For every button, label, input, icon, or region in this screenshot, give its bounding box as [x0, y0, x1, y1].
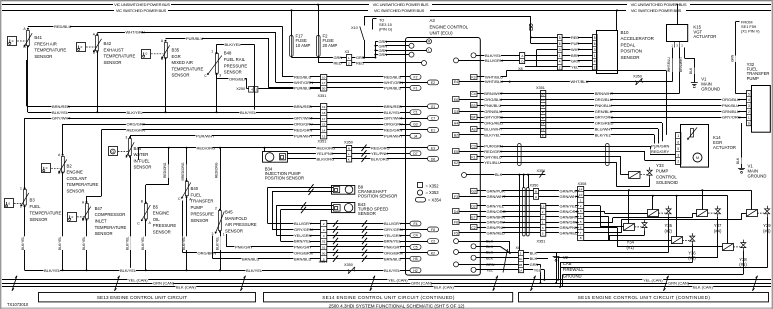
note TO SE3 15: [372, 19, 374, 30]
svg-text:ENGINE: ENGINE: [67, 170, 83, 175]
svg-text:RED: RED: [356, 61, 364, 66]
svg-text:1: 1: [580, 198, 582, 202]
svg-text:3: 3: [219, 73, 221, 77]
wire B35 pin B down: [165, 58, 167, 112]
switch X10 to SE3: [364, 17, 366, 26]
svg-text:F4: F4: [414, 222, 418, 226]
svg-text:3: 3: [542, 226, 544, 230]
svg-text:BLK/YEL: BLK/YEL: [595, 132, 612, 137]
ECU input circles GRN/RED: [406, 41, 427, 43]
svg-text:G1: G1: [431, 105, 436, 109]
svg-text:VIC UNSWITCHED POWER BUS: VIC UNSWITCHED POWER BUS: [114, 2, 170, 7]
wires BLK merge to X8: [481, 241, 510, 243]
svg-text:3: 3: [125, 136, 127, 140]
svg-text:GRN/GRY: GRN/GRY: [487, 220, 506, 225]
svg-text:ORG/BLU: ORG/BLU: [595, 97, 613, 102]
svg-text:BLK/YEL: BLK/YEL: [215, 236, 219, 250]
svg-text:Y33: Y33: [656, 163, 664, 168]
svg-text:YEL/GRN: YEL/GRN: [384, 233, 402, 238]
svg-text:GRY/ORG: GRY/ORG: [595, 115, 614, 120]
svg-text:L: L: [428, 49, 430, 53]
svg-text:GRN: GRN: [334, 55, 343, 60]
connector X351 col2: [321, 104, 327, 139]
svg-text:RED/ORG: RED/ORG: [317, 145, 336, 150]
svg-text:WHT/GRN: WHT/GRN: [294, 80, 313, 85]
svg-text:E2: E2: [431, 81, 435, 85]
injector solenoid Y36 (#3): [672, 237, 683, 244]
svg-text:B44: B44: [134, 146, 142, 151]
svg-text:5: 5: [559, 36, 561, 40]
svg-text:GRN/BRN: GRN/BRN: [487, 214, 506, 219]
wire B42 pin B down: [97, 52, 99, 112]
svg-text:K1: K1: [471, 156, 475, 160]
wire RED/BLU B41 pin A: [28, 26, 282, 28]
svg-text:19: 19: [322, 105, 326, 109]
svg-text:GRN/BLU: GRN/BLU: [722, 109, 740, 114]
svg-text:GRY/GRN: GRY/GRN: [294, 227, 313, 232]
svg-text:GRN/YEL: GRN/YEL: [487, 203, 505, 208]
wire X308 row to Y34 coil: [584, 205, 601, 207]
svg-text:PRESSURE: PRESSURE: [224, 63, 248, 68]
connector B10 pin column: [593, 35, 598, 70]
svg-text:WHT/BLU: WHT/BLU: [667, 57, 671, 72]
svg-text:PNK/GRY: PNK/GRY: [384, 245, 402, 250]
svg-text:SENSOR: SENSOR: [104, 60, 122, 65]
svg-text:2: 2: [542, 210, 544, 214]
svg-text:GRN: GRN: [571, 59, 580, 64]
svg-text:RED/ORG: RED/ORG: [197, 145, 216, 150]
svg-text:= X353: = X353: [426, 190, 440, 195]
pump Y32 fuel transfer: [752, 86, 771, 133]
svg-text:X350: X350: [344, 141, 353, 145]
CAN bus GRN: [2, 283, 771, 285]
svg-text:14: 14: [322, 129, 326, 133]
svg-text:BRN/WHT: BRN/WHT: [679, 57, 683, 72]
sensor B2: [62, 157, 65, 173]
svg-text:5: 5: [580, 220, 582, 224]
svg-text:BLK/ORG: BLK/ORG: [317, 156, 335, 161]
svg-text:RED/GRN: RED/GRN: [127, 127, 146, 132]
CAN bus YEL: [2, 279, 771, 281]
svg-text:GRY/WHT: GRY/WHT: [52, 116, 71, 121]
svg-text:BLK/ORG: BLK/ORG: [371, 156, 389, 161]
svg-text:FIREWALL: FIREWALL: [563, 267, 585, 272]
svg-text:B4: B4: [471, 116, 475, 120]
svg-text:G2: G2: [413, 123, 418, 127]
svg-text:2: 2: [677, 160, 679, 164]
injector solenoid Y34 (#1): [624, 224, 635, 231]
svg-text:A: A: [535, 195, 537, 199]
svg-text:ORG/RED: ORG/RED: [484, 121, 503, 126]
wires GRN/PUR GRN/WHT rows: [481, 190, 534, 192]
svg-text:GROUND: GROUND: [563, 273, 582, 278]
svg-text:o: o: [12, 39, 14, 43]
svg-text:1: 1: [748, 116, 750, 120]
svg-text:17: 17: [322, 117, 326, 121]
svg-text:YEL (CAN): YEL (CAN): [128, 277, 148, 282]
svg-text:3: 3: [212, 232, 214, 236]
wire RED/ORG to B40: [186, 148, 188, 181]
svg-text:B3: B3: [471, 104, 475, 108]
svg-text:PUR/WHT: PUR/WHT: [384, 133, 403, 138]
wire B45 ground down: [220, 232, 222, 271]
svg-text:ORG/RED: ORG/RED: [595, 121, 614, 126]
wire YEL/PNK from B34: [287, 153, 346, 155]
svg-text:CAB: CAB: [563, 261, 572, 266]
svg-text:BLK/YEL: BLK/YEL: [125, 236, 129, 250]
svg-text:H2: H2: [413, 269, 417, 273]
svg-text:X351: X351: [537, 240, 546, 244]
svg-text:F2: F2: [414, 75, 418, 79]
svg-text:PNK/GRY: PNK/GRY: [235, 245, 253, 250]
svg-text:BLK: BLK: [530, 257, 538, 261]
wire Y36 return: [692, 244, 694, 263]
svg-text:YEL (CAN): YEL (CAN): [388, 277, 408, 282]
svg-text:ACTUATOR: ACTUATOR: [693, 34, 716, 39]
wire Y32 pin6 BLK to V1 ground: [741, 123, 743, 168]
note FROM SE1 F59: [736, 21, 740, 23]
svg-text:2A: 2A: [519, 268, 523, 272]
svg-text:BRN/WHT: BRN/WHT: [595, 91, 614, 96]
sensor B43 turbo speed: [332, 203, 355, 213]
connector X350 B A: [534, 189, 539, 200]
svg-text:SE15 ENGINE CONTROL UNIT CIRCU: SE15 ENGINE CONTROL UNIT CIRCUIT (CONTIN…: [578, 295, 711, 300]
connector X8 upper: [520, 53, 525, 64]
wire F17 to X3 pin1 GRN: [291, 57, 293, 58]
svg-text:51: 51: [322, 246, 326, 250]
VIC switched power bus: [2, 10, 114, 12]
connector X350 N L K: [347, 146, 352, 163]
svg-text:17: 17: [322, 81, 326, 85]
wire RED/ORG to B45: [220, 148, 222, 210]
svg-text:1: 1: [20, 187, 22, 191]
svg-text:BLK/YEL: BLK/YEL: [141, 236, 145, 250]
wire YEL/BLU to Y33 return: [481, 162, 617, 164]
svg-text:5: 5: [594, 36, 596, 40]
wire YEL to CAN: [523, 269, 544, 271]
svg-text:2: 2: [20, 205, 22, 209]
svg-text:COOLANT: COOLANT: [67, 176, 88, 181]
svg-text:RED/ORG: RED/ORG: [181, 162, 185, 178]
svg-text:ACCELERATOR: ACCELERATOR: [621, 36, 655, 41]
svg-text:BLK/YEL: BLK/YEL: [384, 110, 401, 115]
svg-text:OIL: OIL: [153, 217, 160, 222]
svg-text:PUR/WHT: PUR/WHT: [196, 133, 215, 138]
svg-text:K2: K2: [431, 251, 435, 255]
svg-text:PUMP: PUMP: [656, 169, 668, 174]
svg-text:ORG/BLK: ORG/BLK: [229, 76, 247, 81]
svg-text:18: 18: [322, 111, 326, 115]
svg-text:GROUND: GROUND: [748, 174, 767, 179]
svg-text:6: 6: [580, 225, 582, 229]
svg-text:E4: E4: [454, 80, 458, 84]
svg-text:X3: X3: [345, 50, 350, 54]
svg-text:50: 50: [322, 251, 326, 255]
ECU CAN pins: [454, 239, 459, 244]
wire B41 pin B down: [27, 46, 29, 112]
svg-text:PRESSURE: PRESSURE: [191, 211, 215, 216]
svg-text:GRN/PUR: GRN/PUR: [560, 189, 579, 194]
svg-text:2: 2: [594, 66, 596, 70]
wire Y37 return: [717, 217, 719, 258]
svg-text:1: 1: [677, 134, 679, 138]
svg-text:X308: X308: [578, 182, 587, 186]
wire supply drops to coils: [628, 190, 630, 223]
svg-text:BLK/YEL: BLK/YEL: [21, 236, 25, 250]
svg-text:BRN/WHT: BRN/WHT: [484, 91, 503, 96]
svg-text:(PIN G): (PIN G): [379, 26, 393, 31]
svg-text:X351: X351: [318, 139, 327, 143]
svg-text:A3: A3: [430, 18, 436, 23]
injector supply row1 GRN/PUR: [584, 190, 752, 192]
svg-text:FUEL RAIL: FUEL RAIL: [224, 57, 246, 62]
svg-text:GRN: GRN: [530, 263, 539, 267]
svg-text:3: 3: [594, 48, 596, 52]
svg-text:SENSOR: SENSOR: [225, 228, 243, 233]
svg-text:6: 6: [542, 110, 544, 114]
svg-text:RED/GRY: RED/GRY: [484, 149, 502, 154]
wires ECU rows to K14: [481, 122, 662, 124]
svg-text:ORG/BRN: ORG/BRN: [294, 250, 313, 255]
svg-text:SOLENOID: SOLENOID: [656, 180, 678, 185]
svg-text:C7: C7: [431, 117, 435, 121]
svg-text:A4: A4: [454, 122, 458, 126]
title box SE15: [519, 293, 769, 302]
svg-text:GRY/ORG: GRY/ORG: [722, 115, 741, 120]
svg-text:o: o: [72, 215, 74, 219]
svg-text:BRN/YEL: BRN/YEL: [384, 239, 402, 244]
svg-text:BRN/BLU: BRN/BLU: [242, 256, 259, 261]
CAN bus BLK: [2, 286, 771, 288]
svg-text:2500 4.3HDI SYSTEM FUNCTIONAL: 2500 4.3HDI SYSTEM FUNCTIONAL SCHEMATIC …: [329, 303, 465, 308]
wire RED/GRN row to B47: [101, 129, 320, 131]
fuse F2 20A: [318, 5, 320, 36]
injector supply row2 GRN/WHT: [584, 195, 728, 197]
svg-text:PNK/GRY: PNK/GRY: [294, 245, 312, 250]
svg-text:C2: C2: [431, 240, 435, 244]
svg-text:E6: E6: [454, 98, 458, 102]
svg-text:C3: C3: [471, 145, 475, 149]
wire GRY/BLU to Y33: [481, 156, 621, 158]
svg-text:3: 3: [748, 104, 750, 108]
svg-text:GRN/WHT: GRN/WHT: [560, 194, 580, 199]
svg-text:GRY/WHT: GRY/WHT: [384, 116, 403, 121]
svg-text:BRN/BLU: BRN/BLU: [294, 256, 311, 261]
connector X351 col1: [321, 75, 327, 92]
svg-text:13: 13: [541, 204, 545, 208]
svg-text:WHT: WHT: [571, 47, 580, 52]
svg-text:K: K: [348, 157, 350, 161]
svg-text:BLK/YEL: BLK/YEL: [120, 268, 137, 273]
svg-text:RED/GRY: RED/GRY: [651, 149, 669, 154]
svg-text:YEL: YEL: [534, 268, 541, 272]
svg-text:TEMPERATURE: TEMPERATURE: [104, 54, 136, 59]
svg-text:GRN: GRN: [730, 54, 734, 62]
connector X351 col3: [321, 221, 327, 262]
wire returns left verticals: [556, 252, 558, 283]
wire BLK/YEL to X8: [481, 55, 520, 57]
svg-text:(#1): (#1): [627, 245, 635, 250]
fuse F17 10A: [291, 10, 293, 35]
svg-text:PUR/WHT: PUR/WHT: [294, 133, 313, 138]
wires GRN group rows: [481, 205, 540, 207]
svg-text:SENSOR: SENSOR: [67, 188, 85, 193]
svg-text:B10: B10: [621, 30, 630, 35]
svg-text:SE13 ENGINE CONTROL UNIT CIRCU: SE13 ENGINE CONTROL UNIT CIRCUIT: [97, 295, 187, 300]
svg-text:1H: 1H: [519, 257, 523, 261]
connector X250: [249, 87, 258, 93]
VIC unswitched power bus: [2, 4, 113, 6]
svg-text:B42: B42: [104, 41, 112, 46]
svg-text:7: 7: [580, 231, 582, 235]
sensor B42: [96, 36, 99, 51]
wire F2 to X3 pin2 RED: [318, 57, 320, 64]
svg-text:o: o: [46, 166, 48, 170]
svg-text:ORG/BRN: ORG/BRN: [198, 250, 217, 255]
wire X308 row to Y35 coil: [584, 211, 605, 213]
wire rows into X351 col3: [268, 223, 321, 225]
svg-text:RED/ORG: RED/ORG: [163, 162, 167, 178]
svg-text:BLK/YEL: BLK/YEL: [82, 236, 86, 250]
svg-text:C2: C2: [471, 226, 475, 230]
wire BLK row: [481, 174, 546, 176]
svg-text:2: 2: [748, 110, 750, 114]
svg-text:ORG/GRY: ORG/GRY: [384, 122, 403, 127]
wire X3 GRN branches: [351, 57, 375, 59]
svg-text:3: 3: [677, 153, 679, 157]
actuator K14 EGR: [681, 125, 709, 168]
svg-text:3: 3: [559, 48, 561, 52]
svg-text:BLU/GRY: BLU/GRY: [384, 221, 402, 226]
svg-text:o: o: [81, 45, 83, 49]
svg-text:GRN (CAN): GRN (CAN): [411, 281, 433, 286]
wire BRN/RED row: [27, 106, 321, 108]
wire ORG/BRN from B40 side pin: [182, 201, 184, 253]
svg-text:PRESSURE: PRESSURE: [153, 223, 177, 228]
svg-text:BLU/GRN: BLU/GRN: [485, 58, 503, 63]
svg-text:YEL/GRN: YEL/GRN: [294, 233, 312, 238]
sensor B47: [86, 204, 89, 219]
svg-text:TEMPERATURE: TEMPERATURE: [95, 225, 127, 230]
svg-text:VIC UNSWITCHED POWER BUS: VIC UNSWITCHED POWER BUS: [631, 2, 687, 7]
svg-text:BLK: BLK: [530, 251, 538, 255]
svg-text:ORG/GRY: ORG/GRY: [127, 122, 146, 127]
svg-text:X250: X250: [236, 87, 245, 91]
sensor B10 accelerator pedal position: [597, 31, 618, 74]
svg-text:VIC UNSWITCHED POWER BUS: VIC UNSWITCHED POWER BUS: [373, 2, 429, 7]
svg-text:(X1 PIN V): (X1 PIN V): [741, 28, 760, 33]
svg-text:5: 5: [748, 92, 750, 96]
wire X8 to X9 rows: [525, 55, 557, 57]
svg-text:GRN/WHT: GRN/WHT: [487, 194, 507, 199]
svg-text:J4: J4: [414, 134, 418, 138]
svg-text:7: 7: [542, 215, 544, 219]
svg-text:B45: B45: [225, 210, 233, 215]
wire RED/ORG to B5 via jog: [145, 185, 147, 203]
wire Y35 return: [668, 217, 670, 253]
svg-text:ORG/BRN: ORG/BRN: [384, 250, 403, 255]
connector X9 left column: [558, 35, 563, 70]
svg-text:52: 52: [541, 104, 545, 108]
svg-text:BLK: BLK: [486, 256, 494, 260]
svg-text:BLK (CAN): BLK (CAN): [176, 284, 196, 289]
svg-text:BLK (CAN): BLK (CAN): [434, 284, 454, 289]
svg-text:VIC SWITCHED POWER BUS: VIC SWITCHED POWER BUS: [116, 8, 167, 13]
svg-text:GRN (CAN): GRN (CAN): [668, 281, 690, 286]
sensor B40 fuel transfer pump pressure: [186, 182, 189, 196]
title box SE13: [39, 293, 256, 302]
svg-text:3: 3: [580, 209, 582, 213]
wire B40 ground down: [186, 197, 188, 270]
svg-text:EGR: EGR: [172, 54, 181, 59]
svg-text:F5: F5: [454, 232, 458, 236]
svg-text:PUR/GRN: PUR/GRN: [651, 144, 670, 149]
svg-text:GROUND: GROUND: [701, 87, 720, 92]
connector X308: [578, 187, 584, 241]
svg-text:E7: E7: [471, 215, 475, 219]
svg-text:PUMP: PUMP: [191, 205, 203, 210]
svg-text:WATER: WATER: [134, 152, 149, 157]
wire Y34 return: [644, 231, 646, 236]
wires X350 to ECU: [351, 147, 405, 149]
svg-text:GRN/RED: GRN/RED: [560, 230, 579, 235]
svg-text:SENSOR: SENSOR: [95, 231, 113, 236]
svg-text:GRY/WHT: GRY/WHT: [294, 116, 313, 121]
wires X9 to B10 RED PUR WHT BRN GRN YEL: [562, 37, 592, 39]
svg-text:ENGINE: ENGINE: [153, 211, 169, 216]
sensor B41: [27, 31, 30, 46]
svg-text:BRN/RED: BRN/RED: [294, 104, 312, 109]
svg-text:TEMPERATURE: TEMPERATURE: [172, 66, 204, 71]
svg-text:C5: C5: [413, 246, 417, 250]
svg-text:X8: X8: [516, 246, 521, 250]
svg-text:GRN/ORG: GRN/ORG: [487, 209, 506, 214]
svg-text:SENSOR: SENSOR: [134, 165, 152, 170]
svg-text:10: 10: [579, 193, 583, 197]
svg-text:POSITION: POSITION: [621, 49, 643, 54]
svg-text:SE14 ENGINE CONTROL UNIT CIRCU: SE14 ENGINE CONTROL UNIT CIRCUIT (CONTIN…: [322, 295, 455, 300]
svg-text:TRANSFER: TRANSFER: [191, 199, 214, 204]
sensor B9 crankshaft position: [332, 186, 355, 195]
svg-text:UNIT (ECU): UNIT (ECU): [430, 30, 454, 35]
ECU right edge pins: [471, 53, 476, 58]
CAN break symbols: [12, 276, 17, 291]
svg-text:D4: D4: [454, 210, 458, 214]
svg-text:o: o: [146, 52, 148, 56]
wire drops to X351 col1: [282, 26, 284, 77]
svg-text:M: M: [696, 156, 699, 160]
svg-text:YEL: YEL: [571, 64, 579, 69]
svg-text:X350: X350: [344, 263, 353, 267]
svg-text:= X352: = X352: [426, 184, 440, 189]
svg-text:B48: B48: [224, 51, 232, 56]
svg-text:X10: X10: [351, 26, 358, 30]
svg-text:C4: C4: [413, 234, 417, 238]
svg-text:TEMPERATURE: TEMPERATURE: [34, 48, 66, 53]
svg-text:BLK: BLK: [689, 67, 693, 74]
svg-text:GRY/BLU: GRY/BLU: [484, 155, 502, 160]
svg-text:F8: F8: [431, 228, 435, 232]
svg-text:RED/GRN: RED/GRN: [294, 127, 313, 132]
wire BLK/YEL B48 pin 1: [216, 44, 218, 53]
svg-text:GRN/BLU: GRN/BLU: [595, 109, 613, 114]
svg-text:M: M: [428, 40, 431, 44]
wire BLK/YEL bottom ground bus: [25, 270, 406, 272]
connector X351 lower section: [541, 204, 546, 237]
svg-text:C1: C1: [413, 111, 417, 115]
svg-text:RED/ORG: RED/ORG: [371, 145, 390, 150]
svg-text:BLK/YEL: BLK/YEL: [44, 268, 61, 273]
